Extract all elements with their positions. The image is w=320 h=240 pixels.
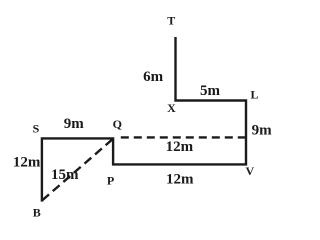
svg-text:V: V xyxy=(245,164,254,178)
svg-text:T: T xyxy=(167,14,175,28)
wire dashed diagonal B-Q xyxy=(42,139,112,200)
svg-text:12m: 12m xyxy=(13,155,41,171)
svg-text:15m: 15m xyxy=(51,167,79,183)
svg-text:12m: 12m xyxy=(166,139,194,155)
svg-text:6m: 6m xyxy=(143,69,164,85)
svg-text:S: S xyxy=(33,121,40,135)
wire dashed horizontal Q to LV xyxy=(117,136,246,138)
svg-text:12m: 12m xyxy=(166,172,194,188)
svg-text:Q: Q xyxy=(113,117,122,131)
wire outline T-X-L-V-P-Q-S-B xyxy=(42,37,246,202)
svg-text:9m: 9m xyxy=(252,123,273,139)
svg-text:5m: 5m xyxy=(200,83,221,99)
svg-text:9m: 9m xyxy=(64,116,85,132)
svg-text:B: B xyxy=(33,205,41,219)
svg-text:X: X xyxy=(167,101,176,115)
svg-text:L: L xyxy=(250,88,258,102)
svg-text:P: P xyxy=(107,173,114,187)
